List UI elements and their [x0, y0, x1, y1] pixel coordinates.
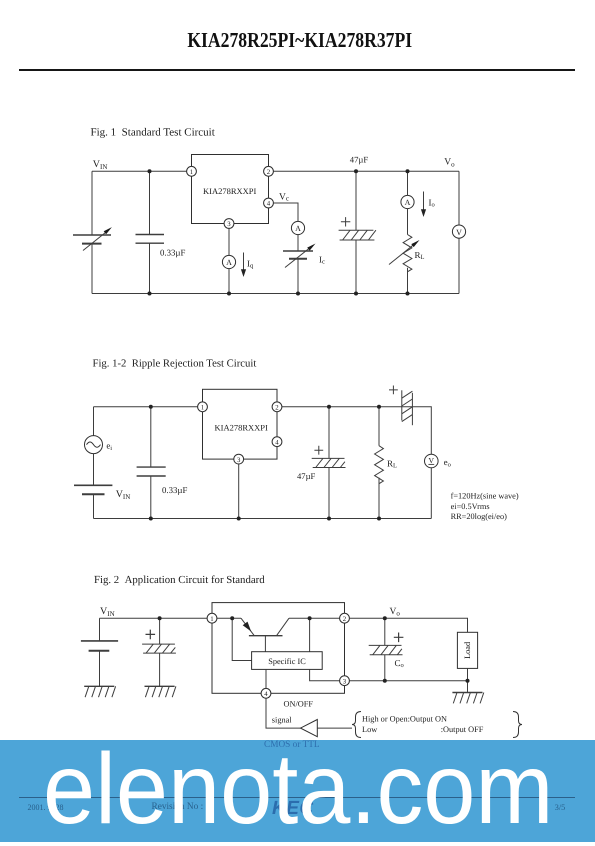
page title — [50, 28, 550, 53]
ammeter A (Ic) — [291, 221, 304, 234]
wire ammeter to RL — [407, 209, 409, 235]
pin 2 — [264, 166, 274, 176]
battery VIN — [74, 485, 112, 494]
figure label Fig.2 — [94, 574, 265, 586]
wire voltmeter to bottom rail — [430, 468, 432, 519]
wire pin4 to Vc branch — [273, 203, 298, 221]
svg-text:Vo: Vo — [444, 158, 455, 169]
voltmeter V eo — [425, 454, 439, 468]
wire Cin branch top — [159, 618, 161, 644]
wire load to ground — [467, 668, 469, 692]
svg-text:47µF: 47µF — [350, 155, 369, 165]
svg-text:A: A — [405, 198, 411, 207]
wire RL branch top — [378, 407, 380, 446]
svg-text:2: 2 — [267, 169, 271, 176]
svg-text:4: 4 — [267, 201, 271, 208]
resistor RL variable — [389, 235, 420, 272]
wire 47uF branch bottom — [328, 468, 330, 519]
current arrow Io — [421, 192, 426, 218]
wire collector node down to Specific IC top — [309, 618, 311, 652]
value label 0.33uF — [160, 247, 185, 257]
svg-text:Fig. 2 Application Circuit fo: Fig. 2 Application Circuit for Standard — [94, 574, 265, 586]
inverter buffer triangle — [301, 720, 318, 737]
wire pin3 to bottom rail — [238, 464, 240, 519]
svg-text:Ic: Ic — [319, 254, 325, 265]
Specific IC box — [252, 652, 323, 670]
svg-text:VIN: VIN — [100, 606, 115, 618]
wire top rail VIN to pin1 — [100, 617, 213, 619]
svg-text:Fig. 1 Standard Test Circuit: Fig. 1 Standard Test Circuit — [91, 126, 215, 138]
note braces and text — [352, 712, 522, 738]
pin 4 — [264, 198, 274, 208]
wire RL to bottom rail — [407, 268, 409, 294]
top rule — [19, 69, 576, 71]
capacitor Cin electrolytic plus — [146, 630, 156, 640]
wire pin3 rail — [349, 680, 467, 682]
wire pin2 to load corner — [349, 618, 467, 632]
wire ammeter to Ic source — [297, 235, 299, 251]
svg-text:1: 1 — [201, 405, 204, 412]
capacitor Co electrolytic plus — [394, 633, 404, 643]
svg-text:0.33µF: 0.33µF — [160, 247, 185, 257]
pin 2 — [340, 613, 350, 623]
pin 3 — [224, 219, 234, 229]
wire Cin to ground — [159, 653, 161, 686]
label Co — [395, 658, 404, 669]
node Vo label — [444, 158, 455, 169]
svg-text:Vc: Vc — [279, 193, 289, 203]
capacitor 0.33uF — [137, 467, 166, 476]
resistor RL — [375, 446, 384, 484]
svg-text:VIN: VIN — [93, 159, 108, 171]
wire Co branch top — [384, 618, 386, 645]
wire Ic source to bottom rail — [297, 259, 299, 294]
test conditions text — [451, 492, 519, 521]
battery VIN — [81, 641, 118, 651]
svg-text:ei: ei — [106, 440, 112, 452]
capacitor C 47uF electrolytic plus — [341, 217, 350, 226]
capacitor 47uF electrolytic plus — [314, 446, 323, 455]
wire 47uF branch top — [355, 171, 357, 230]
junction dots fig1 — [148, 169, 410, 295]
svg-text:eo: eo — [444, 457, 451, 469]
wire bottom rail — [92, 293, 459, 295]
node VIN label — [100, 606, 115, 618]
node Vo label — [390, 607, 401, 618]
svg-text:Iq: Iq — [247, 259, 254, 270]
value label 47uF — [350, 155, 369, 165]
svg-text:1: 1 — [190, 169, 193, 176]
op-amp regulator U2 KIA278RXXPI box — [203, 389, 278, 459]
wire pin3 to ammeter — [228, 228, 230, 255]
pin 4 — [261, 688, 271, 698]
capacitor Co electrolytic body — [369, 645, 403, 654]
svg-text:1: 1 — [210, 616, 213, 623]
wire 47uF branch top — [328, 407, 330, 459]
capacitor series electrolytic plus — [389, 386, 398, 395]
capacitor 47uF electrolytic body — [312, 458, 346, 467]
svg-text:3: 3 — [227, 221, 231, 228]
wire emitter node down to Specific IC left — [232, 618, 251, 660]
pin 3 — [234, 454, 244, 464]
svg-text:KIA278RXXPI: KIA278RXXPI — [215, 422, 269, 432]
svg-text:V: V — [456, 228, 462, 237]
junction dots fig1-2 — [149, 405, 381, 521]
banner — [0, 740, 595, 842]
pin 2 — [272, 402, 282, 412]
svg-text:Fig. 1-2 Ripple Rejection Tes: Fig. 1-2 Ripple Rejection Test Circuit — [93, 357, 257, 369]
variable source Ic (battery with arrow) — [283, 244, 316, 268]
svg-text:VIN: VIN — [116, 489, 131, 501]
capacitor Cin electrolytic body — [142, 644, 176, 653]
label signal — [272, 716, 293, 725]
svg-text:Io: Io — [429, 197, 435, 208]
label ON/OFF — [284, 700, 314, 709]
wire right rail Vo — [458, 171, 460, 293]
wire left branch to AC source — [93, 407, 95, 436]
wire ammeter to bottom rail — [228, 269, 230, 294]
wire pin1 to emitter — [217, 617, 241, 619]
svg-text:47µF: 47µF — [297, 471, 316, 481]
wire 0.33uF branch top — [150, 407, 152, 467]
wire left branch down to source — [91, 171, 93, 235]
node Vc label — [279, 193, 289, 203]
variable source VIN (battery with arrow) — [73, 227, 112, 250]
svg-text:f=120Hz(sine wave): f=120Hz(sine wave) — [451, 492, 519, 501]
svg-text:0.33µF: 0.33µF — [162, 485, 187, 495]
svg-text:Co: Co — [395, 658, 404, 669]
node VIN label — [93, 159, 108, 171]
value label 47uF — [297, 471, 316, 481]
transistor Q1 pass PNP — [241, 618, 289, 636]
svg-text:RL: RL — [387, 459, 397, 470]
svg-text:Specific IC: Specific IC — [268, 657, 306, 666]
svg-text:3: 3 — [237, 457, 241, 464]
svg-text:Vo: Vo — [390, 607, 401, 618]
wire 0.33uF branch bottom — [150, 476, 152, 519]
wire top rail pin2 to Vo corner — [269, 170, 460, 172]
wire Specific IC to pin4 — [265, 669, 267, 688]
wire RL to bottom rail — [378, 478, 380, 519]
wire 47uF branch bottom — [355, 240, 357, 294]
wire RL branch top — [407, 171, 409, 195]
svg-text:High or Open:Output ON: High or Open:Output ON — [362, 714, 447, 723]
svg-text:RL: RL — [415, 250, 425, 261]
ground (battery) — [84, 686, 115, 697]
wire battery stub — [99, 618, 101, 641]
wire battery to ground — [99, 651, 101, 687]
capacitor 0.33uF — [136, 235, 165, 244]
svg-text:2: 2 — [275, 405, 279, 412]
wire 0.33uF branch bottom — [149, 243, 151, 293]
pin 1 — [207, 613, 217, 623]
svg-text:RR=20log(ei/eo): RR=20log(ei/eo) — [451, 512, 508, 521]
svg-text:A: A — [295, 224, 301, 233]
svg-text:ON/OFF: ON/OFF — [284, 700, 314, 709]
wire left branch source to bottom rail — [91, 244, 93, 294]
svg-text:KIA278RXXPI: KIA278RXXPI — [203, 186, 257, 196]
op-amp regulator U1 KIA278RXXPI box — [192, 155, 269, 224]
wire battery to bottom rail — [93, 494, 95, 518]
wire 0.33uF branch top — [149, 171, 151, 234]
ammeter A (Iq) — [222, 255, 235, 268]
wire pin4 to inverter — [266, 698, 301, 728]
wire collector to pin2 — [289, 617, 340, 619]
wire Specific IC to pin3 — [310, 669, 340, 680]
current arrow Iq — [241, 253, 246, 278]
pin 1 — [187, 166, 197, 176]
wire bottom rail — [94, 518, 432, 520]
voltmeter V — [452, 225, 465, 238]
AC source ei — [85, 436, 103, 454]
junction dots fig2 — [158, 616, 470, 683]
capacitor C 47uF electrolytic body — [339, 230, 376, 240]
svg-text:Load: Load — [463, 641, 472, 659]
wire base to Specific IC — [264, 636, 266, 652]
svg-text:2: 2 — [343, 616, 347, 623]
pin 3 — [340, 676, 350, 686]
ammeter A (Io) — [401, 195, 414, 208]
wire Co to pin3 rail — [384, 655, 386, 681]
ground (load) — [452, 693, 483, 704]
svg-text:ei=0.5Vrms: ei=0.5Vrms — [451, 502, 490, 511]
svg-text:4: 4 — [275, 439, 279, 446]
wire inverter to note — [317, 727, 352, 729]
wire top rail pin2 to corner and down — [277, 407, 431, 455]
figure label Fig.1 — [91, 126, 215, 138]
pin 1 — [198, 402, 208, 412]
regulator internal block outline — [212, 603, 345, 694]
wire top rail left VIN to pin1 — [92, 170, 192, 172]
pin 4 — [272, 437, 282, 447]
wire top rail left to pin1 — [94, 406, 203, 408]
figure label Fig.1-2 — [93, 357, 257, 369]
load box — [457, 632, 477, 668]
wire AC source to battery — [93, 454, 95, 486]
svg-text:4: 4 — [264, 691, 268, 698]
capacitor series electrolytic body (vertical) — [402, 390, 413, 425]
svg-text:V: V — [429, 456, 435, 465]
ground (Cin) — [145, 686, 176, 697]
svg-text:3: 3 — [343, 678, 347, 685]
svg-text:A: A — [226, 258, 232, 267]
svg-text:signal: signal — [272, 716, 293, 725]
